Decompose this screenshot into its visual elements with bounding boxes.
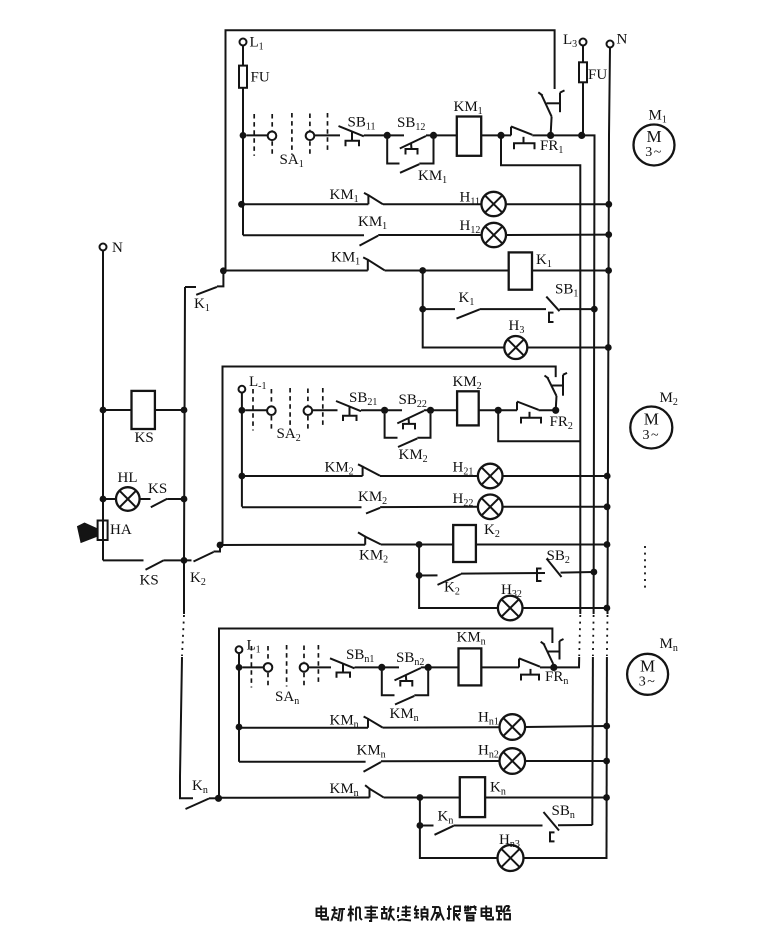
svg-text:N: N [617, 32, 628, 48]
svg-text:KS: KS [148, 481, 167, 497]
svg-text:M: M [646, 127, 661, 146]
svg-text:HA: HA [110, 522, 132, 538]
svg-text:3~: 3~ [639, 675, 657, 690]
svg-text:FU: FU [588, 67, 607, 83]
svg-text:KS: KS [140, 573, 159, 589]
svg-text:HL: HL [118, 470, 138, 486]
svg-text:3~: 3~ [645, 145, 663, 160]
svg-text:FU: FU [251, 70, 270, 86]
svg-text:KS: KS [135, 430, 154, 446]
svg-text:M: M [644, 410, 659, 429]
svg-text:N: N [112, 240, 123, 256]
svg-text:3~: 3~ [643, 428, 661, 443]
svg-text:M: M [640, 657, 655, 676]
